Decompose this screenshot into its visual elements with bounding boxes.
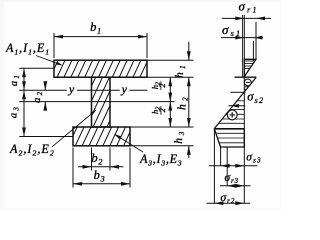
svg-text:A2,I2,E2: A2,I2,E2 <box>9 142 55 158</box>
svg-text:A3,I3,E3: A3,I3,E3 <box>139 152 182 168</box>
svg-text:2: 2 <box>158 84 167 88</box>
svg-text:y: y <box>121 82 128 96</box>
svg-text:A1,I1,E1: A1,I1,E1 <box>5 41 50 57</box>
svg-text:2: 2 <box>158 108 167 112</box>
svg-text:y: y <box>68 82 75 96</box>
